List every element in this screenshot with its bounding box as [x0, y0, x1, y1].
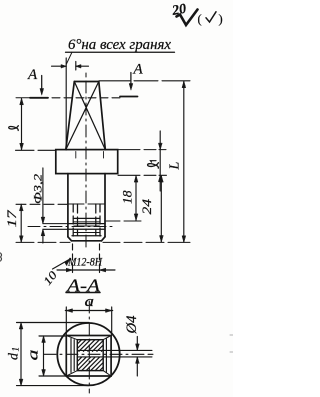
- cross hole centerline: [28, 226, 112, 228]
- square tapered head (front view): [66, 82, 106, 150]
- cross hole dia3.2 extension lines: [43, 223, 68, 225]
- dimension a (square width, top): [65, 294, 112, 335]
- section outer circle (shank dia): [57, 323, 119, 385]
- section inner square: [77, 340, 103, 371]
- svg-text:М12-8Н: М12-8Н: [67, 257, 102, 269]
- scan artifact left edge: [1, 253, 2, 261]
- cylindrical shank: [68, 174, 105, 241]
- svg-text:A: A: [133, 62, 144, 78]
- svg-text:(: (: [198, 12, 202, 26]
- dimension l1 (flange thickness): [148, 131, 162, 191]
- svg-text:а: а: [85, 294, 95, 310]
- threaded blind hole (hidden lines): [68, 204, 105, 236]
- section cut line A-A with view arrows: [16, 62, 144, 98]
- dimension L (overall length): [168, 81, 186, 242]
- svg-text:A: A: [27, 67, 38, 83]
- section view vertical centerline: [88, 301, 90, 393]
- centerline main view: [85, 73, 87, 247]
- flange (collar): [56, 150, 118, 174]
- svg-text:а: а: [26, 350, 42, 361]
- svg-text:1: 1: [11, 347, 21, 352]
- section title A-A: [66, 276, 101, 296]
- section outer square: [66, 336, 111, 377]
- scan artifact right edge: [230, 335, 233, 352]
- flange bottom extension line: [118, 174, 167, 176]
- dimension 18 (thread depth): [106, 176, 141, 221]
- roughness mark Rz20 top right: [170, 2, 223, 26]
- taper corner edges: [66, 336, 111, 377]
- hole bottom line and 17-dim top extension: [16, 203, 67, 205]
- thread callout M12-8H: [57, 244, 115, 273]
- hidden square corner ticks inside flange: [76, 152, 104, 159]
- dimension d1 (outer diameter): [7, 323, 90, 386]
- svg-text:L: L: [168, 162, 183, 171]
- dimension dia 4: [124, 315, 140, 376]
- section view horizontal centerline: [44, 353, 153, 355]
- svg-text:): ): [219, 12, 223, 26]
- flange top extension line: [118, 149, 166, 151]
- right A arrow: [130, 73, 132, 85]
- taper dimension 6deg at head top: [52, 58, 89, 150]
- dimension a (square height, left): [26, 336, 67, 376]
- hatching upper band: [77, 340, 103, 352]
- hatching lower band: [77, 357, 103, 370]
- dimension 24 (shank length): [140, 176, 163, 242]
- left A arrow: [41, 76, 43, 90]
- svg-text:Ф3,2: Ф3,2: [31, 174, 45, 204]
- dimension dia 3,2 (cross hole): [31, 168, 45, 243]
- cross hole edges in section: [77, 350, 152, 357]
- svg-text:24: 24: [140, 199, 154, 215]
- bottom face extension line: [16, 241, 190, 243]
- note: 6 deg on all faces: [66, 37, 175, 64]
- taper flat projection lines: [71, 339, 106, 373]
- leader with value 10: [42, 259, 70, 288]
- svg-text:18: 18: [121, 190, 135, 204]
- dimension l (head length): [9, 98, 56, 150]
- svg-text:6°на всех гранях: 6°на всех гранях: [68, 37, 172, 53]
- extension line from head top to L dimension: [99, 80, 190, 82]
- svg-text:d: d: [7, 352, 22, 360]
- svg-text:17: 17: [5, 209, 19, 227]
- svg-text:Ø4: Ø4: [124, 315, 140, 334]
- dimension 17 (hole depth): [5, 204, 23, 242]
